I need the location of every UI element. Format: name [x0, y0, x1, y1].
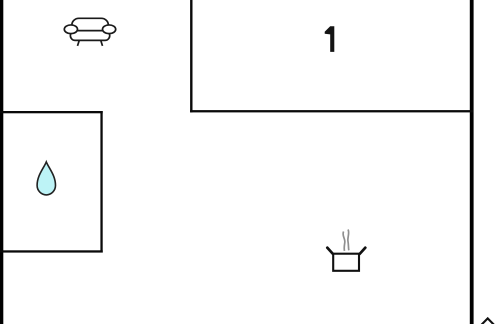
wire room1 bottom wall: [190, 110, 473, 112]
compass north arrow (cut off): [481, 318, 495, 325]
wire bathroom top wall: [0, 111, 103, 113]
water drop icon: [37, 162, 55, 195]
wire bathroom bottom wall: [0, 250, 103, 252]
wire right outer wall: [470, 0, 474, 324]
wire left outer wall: [0, 0, 3, 324]
wire room1 left wall: [190, 0, 192, 112]
sofa icon: [64, 18, 115, 46]
node room label 1: [325, 26, 335, 52]
wire bathroom right wall: [100, 111, 102, 253]
cooking pot icon: [327, 230, 365, 271]
